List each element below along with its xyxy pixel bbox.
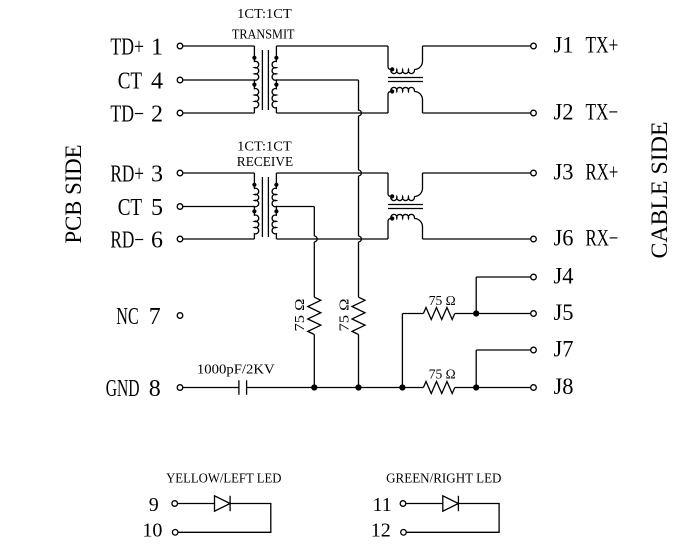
transformer T1 core	[262, 50, 268, 110]
choke L2 top winding	[388, 173, 423, 201]
wire pin 2 to transformer	[183, 112, 255, 114]
svg-text:J6: J6	[554, 225, 574, 250]
pin 8 GND label	[106, 376, 161, 402]
wire LED cathode to pin 12	[406, 504, 499, 533]
svg-text:GND: GND	[106, 376, 140, 402]
wire T2 secondary bottom to choke L2	[276, 238, 388, 240]
choke L1 top winding	[388, 46, 423, 74]
svg-text:J8: J8	[554, 374, 574, 399]
choke L1 core	[388, 78, 423, 82]
terminal J3	[531, 170, 537, 176]
svg-text:8: 8	[149, 376, 161, 402]
junction ground/R2	[355, 384, 361, 390]
junction ground/R1	[311, 384, 317, 390]
terminal J5	[531, 311, 537, 317]
wire T1 secondary bottom to choke L1	[276, 112, 388, 114]
transformer T1 label TRANSMIT	[232, 27, 295, 42]
wire choke L2 to J6	[423, 238, 531, 240]
pin 2 TD- label	[110, 102, 163, 128]
wire choke L2 to J3	[423, 172, 531, 174]
svg-text:J7: J7	[554, 336, 574, 361]
svg-text:RX−: RX−	[586, 225, 619, 250]
pin 10 terminal	[172, 530, 178, 536]
wire T1 secondary top to choke L1	[276, 45, 388, 47]
transformer T2 label 1CT:1CT	[237, 139, 292, 154]
terminal J7 label	[554, 336, 574, 361]
pin 9 label	[149, 494, 159, 516]
svg-text:TD−: TD−	[110, 102, 144, 128]
PCB SIDE title	[61, 145, 87, 244]
terminal J1	[531, 43, 537, 49]
wire pin 9 to LED anode	[178, 503, 215, 505]
svg-text:TD+: TD+	[110, 35, 144, 61]
svg-text:1CT:1CT: 1CT:1CT	[237, 139, 292, 154]
terminal J2	[531, 110, 537, 116]
svg-text:2: 2	[151, 102, 163, 128]
resistor R4 value 75 ohm	[429, 367, 456, 382]
terminal J8 label	[554, 374, 574, 399]
pin 8 GND terminal	[177, 385, 183, 391]
junction R3/J5	[473, 310, 479, 316]
pin 4 CT terminal	[177, 77, 183, 83]
capacitor C1 value 1000pF/2KV	[197, 362, 275, 377]
wire pin 5 to transformer	[183, 206, 255, 208]
wire junction to J4	[476, 277, 531, 314]
pin 10 label	[142, 520, 162, 542]
pin 3 RD+ label	[110, 162, 163, 188]
wire pin 3 to transformer	[183, 172, 255, 174]
svg-text:CT: CT	[118, 195, 143, 221]
svg-text:3: 3	[151, 162, 163, 188]
svg-text:TRANSMIT: TRANSMIT	[232, 27, 295, 42]
pin 11 label	[372, 494, 391, 516]
wire junction to J7	[476, 350, 531, 388]
terminal J5 label	[554, 300, 574, 325]
pin 1 TD+ terminal	[177, 43, 183, 49]
svg-text:RECEIVE: RECEIVE	[237, 154, 293, 169]
svg-text:12: 12	[371, 520, 391, 542]
svg-text:NC: NC	[116, 304, 138, 330]
wire pin 11 to LED anode	[406, 503, 443, 505]
transformer T2 label RECEIVE	[237, 154, 293, 169]
pin 12 label	[371, 520, 391, 542]
svg-text:PCB SIDE: PCB SIDE	[61, 145, 87, 244]
pin 6 RD- label	[110, 228, 163, 254]
svg-text:1000pF/2KV: 1000pF/2KV	[197, 362, 275, 377]
wire resistor R2 riser with hops	[359, 80, 362, 297]
resistor R3 value 75 ohm	[429, 293, 456, 308]
svg-text:7: 7	[149, 304, 161, 330]
LED D1	[215, 496, 231, 511]
svg-text:4: 4	[151, 69, 163, 95]
svg-text:J5: J5	[554, 300, 574, 325]
svg-text:1: 1	[151, 35, 163, 61]
svg-text:TX−: TX−	[586, 99, 619, 124]
wire choke L1 to J1	[423, 45, 531, 47]
pin 5 CT label	[118, 195, 163, 221]
choke L1 bottom winding	[388, 87, 423, 113]
LED D2	[443, 496, 459, 511]
svg-text:5: 5	[151, 195, 163, 221]
svg-text:RD−: RD−	[110, 228, 144, 254]
junction R4/J8	[473, 384, 479, 390]
pin 4 CT label	[118, 69, 163, 95]
svg-text:75 Ω: 75 Ω	[292, 299, 307, 332]
wire choke L1 to J2	[423, 112, 531, 114]
pin 1 TD+ label	[110, 35, 163, 61]
svg-text:11: 11	[372, 494, 391, 516]
capacitor C1 1000pF/2KV	[239, 380, 247, 395]
svg-text:J4: J4	[554, 263, 574, 288]
resistor R4 75ohm	[423, 382, 454, 394]
transformer T1 primary winding	[252, 46, 258, 113]
pin 7 NC terminal	[177, 313, 183, 319]
resistor R2 75ohm	[352, 297, 365, 387]
transformer T2 primary winding	[252, 173, 258, 239]
svg-text:J3: J3	[554, 159, 574, 184]
pin 6 RD- terminal	[177, 236, 183, 242]
pin 2 TD- terminal	[177, 110, 183, 116]
transformer T2 secondary winding	[272, 173, 278, 239]
transformer T1 label 1CT:1CT	[237, 6, 292, 21]
svg-text:75 Ω: 75 Ω	[429, 293, 456, 308]
terminal J8	[531, 385, 537, 391]
resistor R1 value 75 ohm	[292, 299, 307, 332]
svg-text:9: 9	[149, 494, 159, 516]
wire T2 secondary top to choke L2	[276, 172, 388, 174]
wire pin 4 to transformer	[183, 79, 255, 81]
wire R3 riser	[402, 314, 423, 388]
terminal J1 label	[554, 32, 619, 57]
svg-text:75 Ω: 75 Ω	[337, 299, 352, 332]
pin 11 terminal	[400, 501, 406, 507]
svg-text:TX+: TX+	[586, 32, 619, 57]
svg-text:GREEN/RIGHT LED: GREEN/RIGHT LED	[386, 470, 502, 485]
CABLE SIDE title	[647, 122, 673, 259]
svg-text:75 Ω: 75 Ω	[429, 367, 456, 382]
pin 12 terminal	[401, 530, 407, 536]
svg-text:RD+: RD+	[110, 162, 144, 188]
terminal J6	[531, 236, 537, 242]
terminal J4 label	[554, 263, 574, 288]
choke L2 core	[388, 205, 423, 209]
svg-text:RX+: RX+	[586, 159, 619, 184]
svg-text:1CT:1CT: 1CT:1CT	[237, 6, 292, 21]
terminal J7	[531, 347, 537, 353]
svg-text:J1: J1	[554, 32, 574, 57]
wire T2 center tap to resistor R1	[276, 206, 314, 208]
resistor R3 75ohm	[423, 308, 476, 320]
terminal J4	[531, 274, 537, 280]
junction ground/R3 riser	[399, 384, 405, 390]
wire ground bus	[247, 387, 531, 389]
wire junction to J5	[476, 313, 531, 315]
svg-text:10: 10	[142, 520, 162, 542]
resistor R1 75ohm	[308, 297, 321, 387]
terminal J6 label	[554, 225, 619, 250]
pin 3 RD+ terminal	[177, 170, 183, 176]
LED label GREEN/RIGHT LED	[386, 470, 502, 485]
wire resistor R1 riser with hop	[314, 207, 317, 298]
wire pin 1 to transformer	[183, 45, 255, 47]
wire LED cathode to pin 10	[178, 504, 271, 533]
svg-text:CT: CT	[118, 69, 143, 95]
LED label YELLOW/LEFT LED	[166, 470, 282, 485]
svg-text:J2: J2	[554, 99, 574, 124]
pin 5 CT terminal	[177, 204, 183, 210]
wire pin 6 to transformer	[183, 238, 255, 240]
choke L2 bottom winding	[388, 214, 423, 239]
transformer T2 core	[262, 177, 268, 237]
pin 9 terminal	[172, 501, 178, 507]
wire T1 center tap to resistor R2	[276, 79, 358, 81]
svg-text:6: 6	[151, 228, 163, 254]
pin 7 NC label	[116, 304, 161, 330]
terminal J2 label	[554, 99, 619, 124]
wire pin 8 to capacitor C1	[183, 387, 239, 389]
resistor R2 value 75 ohm	[337, 299, 352, 332]
transformer T1 secondary winding	[272, 46, 278, 113]
svg-text:CABLE SIDE: CABLE SIDE	[647, 122, 673, 259]
svg-text:YELLOW/LEFT LED: YELLOW/LEFT LED	[166, 470, 282, 485]
terminal J3 label	[554, 159, 619, 184]
